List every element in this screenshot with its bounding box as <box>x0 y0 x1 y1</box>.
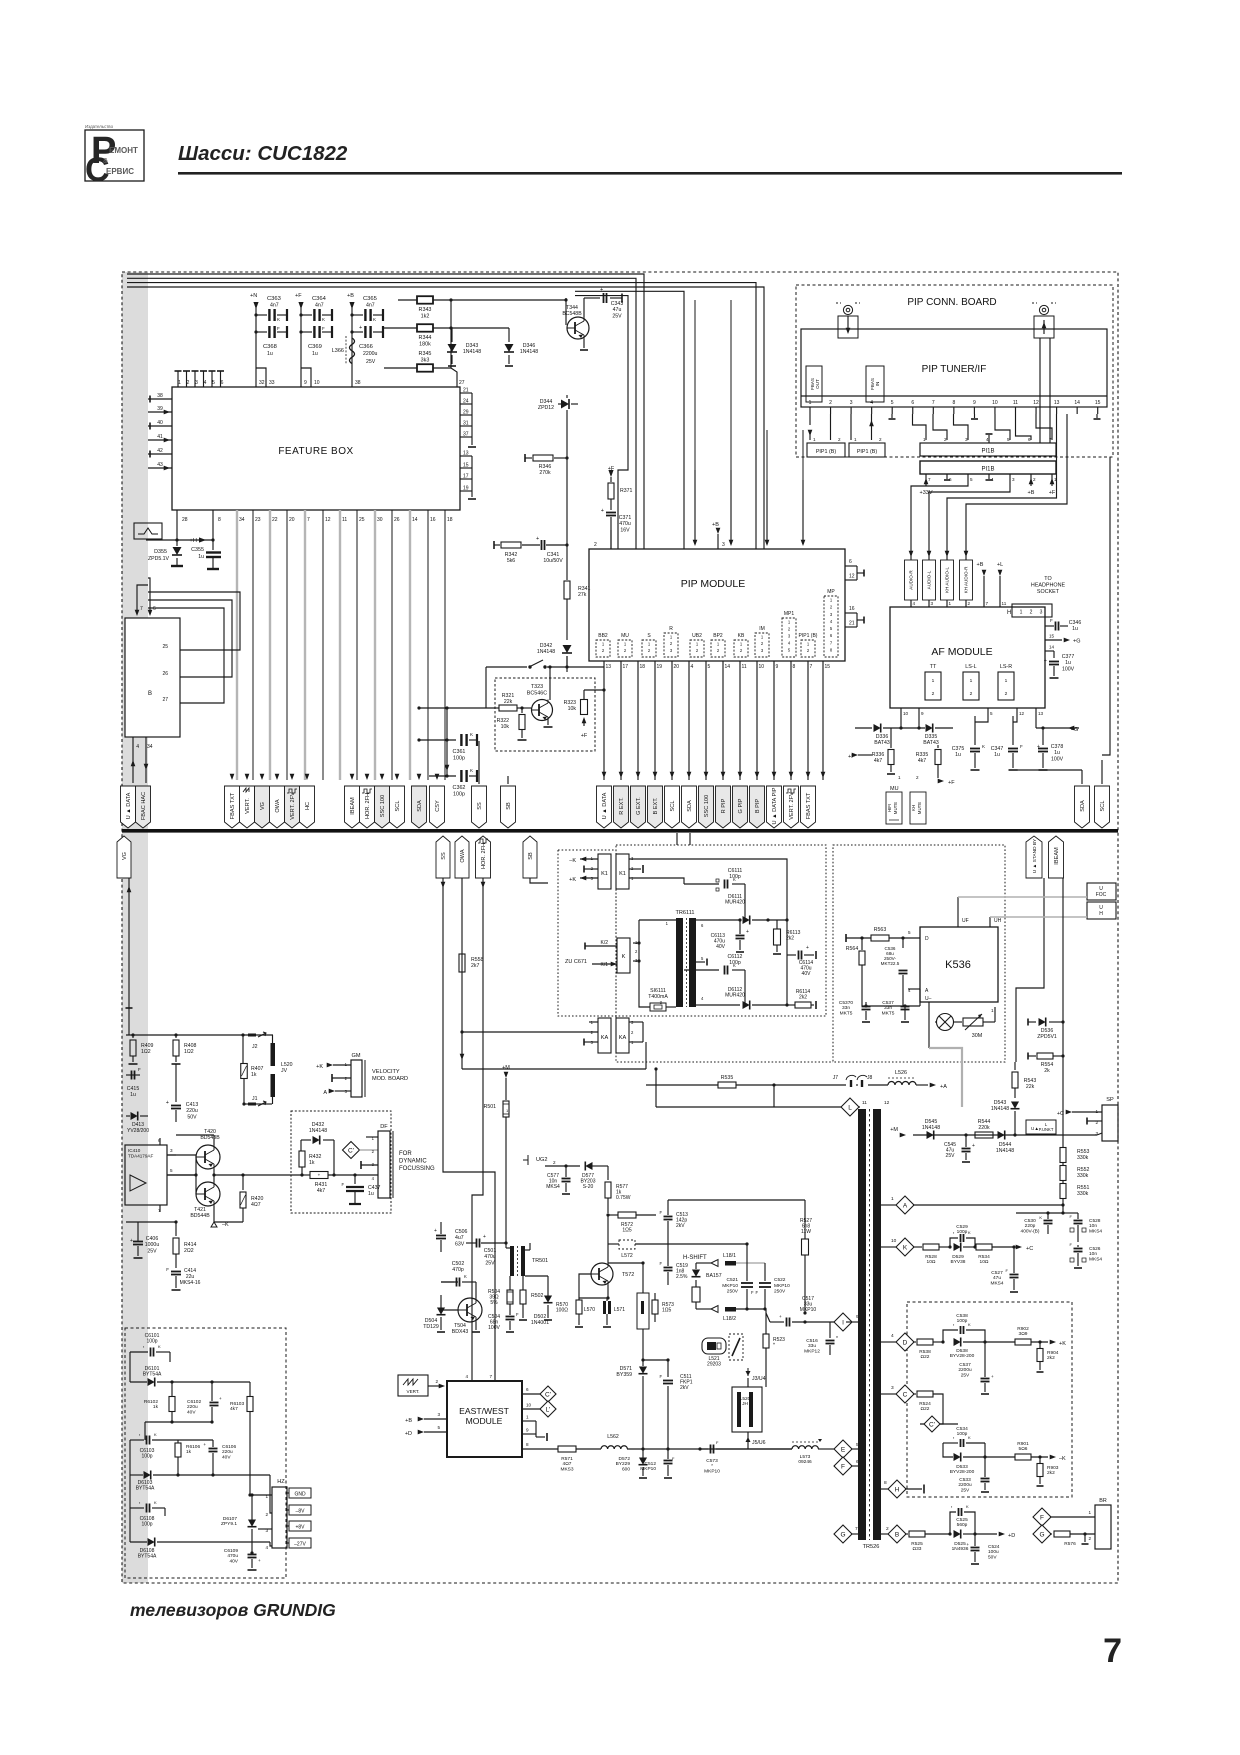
svg-text:F: F <box>138 1067 141 1072</box>
svg-text:13: 13 <box>606 664 612 670</box>
svg-text:29203: 29203 <box>707 1362 721 1368</box>
svg-text:2: 2 <box>829 400 832 406</box>
svg-text:+F: +F <box>581 733 588 739</box>
feature box pin 8 label <box>218 517 221 523</box>
svg-text:R576: R576 <box>1064 1541 1076 1547</box>
svg-text:1: 1 <box>1005 678 1008 684</box>
tag CSY above bus <box>430 786 445 828</box>
svg-text:400V-(B): 400V-(B) <box>1021 1228 1040 1234</box>
tag SCL right <box>1095 760 1110 828</box>
tag GND <box>289 1488 311 1498</box>
svg-text:C6111: C6111 <box>728 868 743 874</box>
wire hz pin2 <box>213 1475 272 1513</box>
capacitor C502 470p <box>441 1261 476 1287</box>
diode BA157 <box>692 1263 722 1287</box>
svg-text:1N4148: 1N4148 <box>309 1128 327 1134</box>
svg-text:2: 2 <box>886 1526 889 1532</box>
svg-text:2: 2 <box>1033 477 1036 482</box>
tuner pin 12 <box>1033 400 1039 414</box>
svg-text:1u: 1u <box>267 351 273 357</box>
resistor R901 5ohm6 <box>985 1441 1048 1460</box>
svg-text:R904: R904 <box>1047 1350 1059 1356</box>
svg-text:14: 14 <box>412 517 418 523</box>
svg-text:20: 20 <box>674 664 680 670</box>
wire T420/T421 chain <box>176 1135 216 1222</box>
pip module pin 9 <box>772 661 779 780</box>
svg-text:+: + <box>483 1234 486 1240</box>
svg-text:D504: D504 <box>425 1318 438 1324</box>
svg-text:6: 6 <box>526 1387 529 1392</box>
svg-text:R408: R408 <box>184 1043 197 1049</box>
feature box pin 10 label <box>314 380 320 386</box>
wire B row to +D <box>975 1533 997 1535</box>
svg-text:C527: C527 <box>991 1270 1003 1276</box>
tag AUDIO-R <box>905 540 918 600</box>
svg-text:6: 6 <box>830 633 833 638</box>
svg-text:UH: UH <box>994 918 1002 924</box>
diode D543 1N4148 <box>991 1100 1020 1135</box>
resistor R572 1ohm5 <box>606 1212 656 1234</box>
power arrow +F <box>295 293 302 299</box>
antenna connector 1 <box>836 303 860 338</box>
svg-text:S-20: S-20 <box>583 1184 594 1190</box>
svg-text:47u: 47u <box>613 307 622 313</box>
af pin 1 <box>947 600 952 607</box>
tuner pin 15 <box>1095 400 1101 414</box>
svg-text:R336: R336 <box>872 752 885 758</box>
resistor R342 5k6 / capacitor C341 10u/50V <box>494 536 569 564</box>
feature box pin 13 <box>460 451 472 457</box>
diode D502 1N4001 <box>531 1276 553 1326</box>
svg-text:9: 9 <box>526 1428 529 1433</box>
svg-text:U ▲ DATA: U ▲ DATA <box>126 792 132 819</box>
connector PIP1 (B) a <box>807 437 845 457</box>
svg-text:SS: SS <box>441 852 447 860</box>
svg-text:C368: C368 <box>263 344 277 350</box>
wire L520 vert <box>747 1378 749 1449</box>
svg-text:ZPD5V1: ZPD5V1 <box>1037 1034 1057 1040</box>
feature box pin 20 label <box>289 517 295 523</box>
node H diamond <box>881 1480 924 1498</box>
lamp symbol <box>935 1014 962 1031</box>
svg-text:10: 10 <box>314 380 320 386</box>
pip module pin 4 <box>687 661 694 780</box>
svg-text:T420: T420 <box>204 1129 216 1135</box>
diode D346 1N4148 <box>451 328 538 366</box>
svg-text:8: 8 <box>793 664 796 670</box>
inductor L521 29203 <box>702 1338 726 1368</box>
svg-text:C573: C573 <box>706 1458 718 1464</box>
svg-text:C6112: C6112 <box>728 954 743 960</box>
transformer TR526 core bars <box>858 1109 881 1540</box>
sync box <box>134 523 162 539</box>
node L diamond <box>841 1098 859 1116</box>
supply +D <box>999 1532 1016 1539</box>
svg-text:+: + <box>359 325 362 331</box>
svg-text:▪: ▪ <box>139 1501 140 1505</box>
svg-text:37: 37 <box>463 432 469 438</box>
svg-text:IBEAM: IBEAM <box>350 797 356 815</box>
main horizontal bus <box>122 829 1118 833</box>
svg-text:Ω22: Ω22 <box>921 1354 930 1360</box>
svg-text:FEATURE BOX: FEATURE BOX <box>278 446 353 457</box>
ew pin9 <box>522 1428 547 1442</box>
svg-text:MKS4: MKS4 <box>1089 1228 1102 1234</box>
svg-text:BR: BR <box>1099 1498 1107 1504</box>
pip module pin 20 <box>670 661 680 780</box>
svg-text:BC548B: BC548B <box>562 311 582 317</box>
tag L PUNKT <box>1026 1120 1056 1134</box>
svg-text:1: 1 <box>970 678 973 684</box>
feature box pin 21 <box>460 388 472 394</box>
svg-text:MKS3: MKS3 <box>560 1466 573 1472</box>
svg-text:3: 3 <box>1040 610 1043 616</box>
tag SSC 100 pip row <box>699 786 714 828</box>
svg-text:63V: 63V <box>455 1241 465 1247</box>
capacitor C521 MKP10 250V <box>722 1242 754 1310</box>
resistor R552 330k <box>1060 1162 1090 1181</box>
svg-text:+33V: +33V <box>920 490 933 496</box>
ew pin6 C' <box>522 1386 556 1402</box>
svg-text:5: 5 <box>830 626 833 631</box>
wire af feed 2 <box>929 474 1010 540</box>
svg-text:1: 1 <box>813 437 816 442</box>
capacitor C364 / C369 pair <box>298 296 332 368</box>
svg-text:VG: VG <box>260 802 266 810</box>
pip module pin 19 <box>653 661 663 780</box>
wire OWA line down <box>460 878 465 1069</box>
svg-text:MU: MU <box>621 633 629 639</box>
resistor R323 10k <box>564 688 606 739</box>
svg-text:PIP1 (B): PIP1 (B) <box>857 449 878 455</box>
wire af pin10 down <box>900 716 902 728</box>
svg-text:600: 600 <box>622 1466 630 1472</box>
svg-text:11: 11 <box>342 517 347 523</box>
tuner pin 2 <box>829 400 832 414</box>
svg-text:4: 4 <box>913 601 916 606</box>
svg-text:MKP12: MKP12 <box>804 1348 820 1354</box>
svg-text:HC: HC <box>305 802 311 810</box>
svg-text:F: F <box>751 1290 754 1295</box>
svg-text:+N: +N <box>250 293 257 299</box>
svg-text:100Ω: 100Ω <box>556 1308 568 1314</box>
capacitor C573 MKP10 <box>700 1440 792 1474</box>
svg-text:6: 6 <box>849 559 852 565</box>
tag OWA below bus <box>455 836 469 878</box>
svg-text:J8: J8 <box>867 1075 873 1081</box>
svg-text:5Ω6: 5Ω6 <box>1019 1446 1028 1452</box>
svg-text:1: 1 <box>1088 1510 1091 1515</box>
diode D538 BYV28-200 <box>950 1338 987 1360</box>
resistor R321 22k <box>495 693 531 711</box>
svg-text:IBEAM: IBEAM <box>1054 847 1060 865</box>
svg-text:3: 3 <box>788 634 791 639</box>
KA pin1 stub <box>589 1021 598 1023</box>
svg-text:10Ω: 10Ω <box>980 1259 989 1265</box>
svg-text:47u: 47u <box>993 1275 1001 1281</box>
svg-text:SDA: SDA <box>417 800 423 812</box>
svg-text:LS-L: LS-L <box>965 664 976 670</box>
tuner pin 7 <box>932 400 935 414</box>
svg-text:15: 15 <box>1095 400 1101 406</box>
svg-text:C6106: C6106 <box>222 1444 236 1450</box>
svg-text:2: 2 <box>594 542 597 548</box>
svg-text:10n: 10n <box>1089 1223 1097 1229</box>
wire af feed 1 <box>911 474 968 540</box>
label K/2 <box>585 940 617 950</box>
svg-text:D335: D335 <box>925 734 938 740</box>
svg-text:4Ω7: 4Ω7 <box>251 1202 261 1208</box>
wire hz pin3 <box>252 1528 272 1530</box>
svg-text:HEADPHONE: HEADPHONE <box>1031 583 1066 589</box>
jumper J2 <box>248 1032 266 1050</box>
svg-text:R528: R528 <box>925 1254 937 1260</box>
svg-text:FOC: FOC <box>1096 892 1107 898</box>
dashed box K-rect out <box>907 1302 1072 1497</box>
svg-text:YV28/200: YV28/200 <box>127 1128 149 1134</box>
svg-text:L562: L562 <box>607 1434 619 1440</box>
svg-text:1: 1 <box>670 635 673 640</box>
feature box pin 7 label <box>307 517 310 523</box>
svg-text:SCL: SCL <box>1100 801 1106 812</box>
svg-text:1: 1 <box>788 620 791 625</box>
svg-text:7: 7 <box>855 1526 858 1532</box>
wire OWA to KA <box>462 1042 646 1069</box>
svg-text:3: 3 <box>722 542 725 548</box>
tag VG below bus <box>117 836 131 878</box>
node K diamond <box>881 1238 914 1256</box>
svg-text:BC546C: BC546C <box>527 690 547 696</box>
svg-text:C522: C522 <box>774 1277 786 1283</box>
svg-text:09246: 09246 <box>798 1459 812 1465</box>
svg-text:2: 2 <box>1088 1536 1091 1541</box>
tuner pin 5 <box>891 400 894 414</box>
feature box pin 26 label <box>394 517 400 523</box>
capacitor C415 1u <box>126 1067 141 1098</box>
supply +M t501 <box>502 1065 510 1100</box>
diode D536 ZPD5V1 <box>1028 1018 1065 1041</box>
svg-text:14: 14 <box>1074 400 1080 406</box>
wire IC left loop 27 <box>148 608 224 703</box>
svg-text:1N4148: 1N4148 <box>996 1148 1014 1154</box>
capacitor C346 1u <box>1045 618 1081 632</box>
K1 b pin2 tbar <box>629 865 643 873</box>
module AF MODULE <box>890 607 1045 708</box>
svg-text:2: 2 <box>916 775 919 780</box>
svg-text:4: 4 <box>891 1333 894 1339</box>
svg-text:1u: 1u <box>1065 660 1071 666</box>
svg-text:C362: C362 <box>453 785 466 791</box>
svg-text:J3/U4: J3/U4 <box>752 1376 766 1382</box>
capacitor C545 47u 25V <box>944 1135 975 1162</box>
wire arrow into tag x397 <box>395 774 400 780</box>
wire K1b pin3 rail <box>629 859 787 955</box>
svg-text:25V: 25V <box>147 1248 157 1254</box>
svg-text:R571: R571 <box>561 1456 573 1462</box>
diode D504 TD129 <box>423 1295 445 1332</box>
svg-text:K: K <box>968 1230 971 1235</box>
svg-text:MKT5: MKT5 <box>840 1010 853 1016</box>
feature box pin 18 label <box>447 517 453 523</box>
svg-text:R6102: R6102 <box>144 1399 158 1405</box>
KA pin3 tbar <box>584 1039 598 1046</box>
tag HIFI MUTE <box>886 792 902 824</box>
svg-text:VELOCITY: VELOCITY <box>372 1069 400 1075</box>
transformer TR6111 <box>633 910 707 1007</box>
svg-text:OWA: OWA <box>460 849 466 862</box>
svg-text:R564: R564 <box>846 946 859 952</box>
svg-text:KH AUDIO-R: KH AUDIO-R <box>964 566 969 593</box>
svg-text:C343: C343 <box>611 301 624 307</box>
svg-text:3: 3 <box>891 1385 894 1391</box>
svg-text:12: 12 <box>325 517 331 523</box>
svg-text:R553: R553 <box>1077 1149 1090 1155</box>
resistor R528 10ohm <box>923 1244 952 1265</box>
svg-text:D571: D571 <box>620 1366 633 1372</box>
svg-text:SSC 100: SSC 100 <box>704 795 710 817</box>
tag SS above bus <box>472 786 487 828</box>
wire af pin5 to C375 <box>975 716 988 722</box>
svg-text:C355: C355 <box>191 547 204 553</box>
IC left (hidden) box <box>125 618 180 737</box>
svg-text:EAST/WEST: EAST/WEST <box>459 1406 509 1416</box>
svg-text:470p: 470p <box>452 1267 464 1273</box>
diode D6103 BYT54A <box>130 1440 270 1492</box>
wire feature pin 34 down <box>236 510 238 780</box>
tag -27V <box>289 1538 311 1548</box>
svg-text:▪: ▪ <box>953 1231 954 1235</box>
svg-text:PIP TUNER/IF: PIP TUNER/IF <box>922 364 987 375</box>
capacitor C6112 100p <box>684 884 745 1005</box>
svg-text:2: 2 <box>553 1160 556 1165</box>
wire D544 row <box>913 1133 1097 1136</box>
wire KA to L-row <box>654 1067 657 1107</box>
svg-text:SDA: SDA <box>1080 800 1086 812</box>
wire arrow into tag x232 <box>230 774 235 780</box>
svg-text:+: + <box>779 1314 782 1319</box>
svg-text:AUDIO-L: AUDIO-L <box>927 570 932 589</box>
svg-text:R346: R346 <box>539 464 552 470</box>
resistor R544 220k <box>975 1119 993 1138</box>
wire R420 bottom <box>214 1221 243 1223</box>
svg-text:TDA4179AF: TDA4179AF <box>128 1153 153 1158</box>
svg-text:1k: 1k <box>309 1160 315 1166</box>
capacitor C5370 33n MKT5 <box>839 1000 871 1022</box>
svg-text:13: 13 <box>1038 711 1044 716</box>
svg-text:100p: 100p <box>146 1339 157 1345</box>
wire arrow into tag x367 <box>365 774 370 780</box>
svg-text:330k: 330k <box>1077 1191 1089 1197</box>
node A diamond <box>881 1196 1065 1214</box>
page number <box>1103 1632 1122 1670</box>
pip module pin 5 <box>704 661 711 780</box>
svg-text:R343: R343 <box>419 307 432 313</box>
tag HC above bus <box>300 786 315 828</box>
capacitor C511 FKP1 2kV <box>659 1360 692 1449</box>
svg-text:10: 10 <box>891 1238 897 1244</box>
tag VG above bus <box>255 786 270 828</box>
supply +B pin2 <box>1028 474 1035 496</box>
svg-text:B: B <box>895 1531 899 1538</box>
vert sawtooth box <box>398 1375 428 1396</box>
resistor R420 4ohm7 <box>240 1175 264 1222</box>
inductor L520 JH <box>732 1387 762 1432</box>
svg-text:40: 40 <box>157 420 163 426</box>
svg-text:11W: 11W <box>801 1229 811 1235</box>
svg-text:1: 1 <box>991 1008 994 1013</box>
wire R346 down <box>566 449 568 537</box>
svg-text:4: 4 <box>830 619 833 624</box>
tuner pin9 ground <box>971 414 978 419</box>
resistor R336 4k7 <box>858 728 895 774</box>
svg-text:BA157: BA157 <box>706 1273 722 1279</box>
svg-text:R554: R554 <box>1041 1062 1054 1068</box>
svg-text:SCL: SCL <box>670 801 676 812</box>
svg-text:+: + <box>1037 744 1040 750</box>
diode D342 1N4148 <box>537 643 572 672</box>
svg-text:1: 1 <box>666 921 669 926</box>
svg-text:F: F <box>1020 744 1023 749</box>
svg-text:+F: +F <box>948 780 955 786</box>
capacitor C6101 100p <box>130 1333 170 1382</box>
svg-text:28: 28 <box>182 517 188 523</box>
svg-text:–K: –K <box>222 1222 229 1228</box>
pip sub-connector S <box>642 633 656 657</box>
wire feature pin 30 down <box>374 510 376 780</box>
diode D335 BAT43 <box>901 724 953 747</box>
wire af feed 3 <box>947 424 1057 540</box>
svg-text:11: 11 <box>1013 400 1018 406</box>
svg-text:2k7: 2k7 <box>471 963 479 969</box>
module PIP MODULE <box>589 549 845 661</box>
pip pin2 label <box>594 530 611 549</box>
label K/1 <box>592 962 617 968</box>
PI1B bar2 pin 2 label <box>1033 477 1036 482</box>
pip module pin 11 <box>738 661 747 780</box>
svg-text:U ▲ STAND BY: U ▲ STAND BY <box>1032 838 1038 873</box>
connector GM velocity <box>345 1053 365 1097</box>
svg-text:MKP10: MKP10 <box>800 1307 817 1313</box>
connector FBAS IN <box>866 366 884 402</box>
gm pin2 tbar <box>332 1074 351 1082</box>
svg-text:7: 7 <box>986 601 989 606</box>
wire band to D355 row <box>146 538 215 541</box>
wire tuner pin6 to PI1B <box>913 414 927 440</box>
tag VERT. 2FV above bus <box>285 786 300 828</box>
connector K tr6111 <box>617 938 638 973</box>
wire tr526 primary bottom <box>846 1321 858 1323</box>
wire top-bus line 6 <box>575 296 628 549</box>
svg-text:15: 15 <box>825 664 831 670</box>
svg-text:1: 1 <box>1020 610 1023 616</box>
feature box pin 39 left <box>148 406 172 414</box>
svg-text:+8V: +8V <box>295 1525 305 1531</box>
svg-text:1u: 1u <box>130 1092 136 1098</box>
inductor L366 <box>332 336 376 365</box>
svg-text:5: 5 <box>990 711 993 716</box>
capacitor C6114 470u 40V <box>787 945 816 977</box>
resistor R371 +F <box>608 466 633 510</box>
svg-text:50V: 50V <box>187 1114 197 1120</box>
svg-text:C377: C377 <box>1062 654 1075 660</box>
svg-text:TR501: TR501 <box>532 1258 548 1264</box>
svg-text:1: 1 <box>740 642 743 647</box>
resistor R553 330k <box>1060 1145 1090 1163</box>
svg-text:5: 5 <box>970 477 973 482</box>
resistor R6106 1k <box>175 1440 200 1475</box>
svg-text:2k2: 2k2 <box>1047 1470 1055 1476</box>
svg-text:PI1B: PI1B <box>981 467 994 473</box>
